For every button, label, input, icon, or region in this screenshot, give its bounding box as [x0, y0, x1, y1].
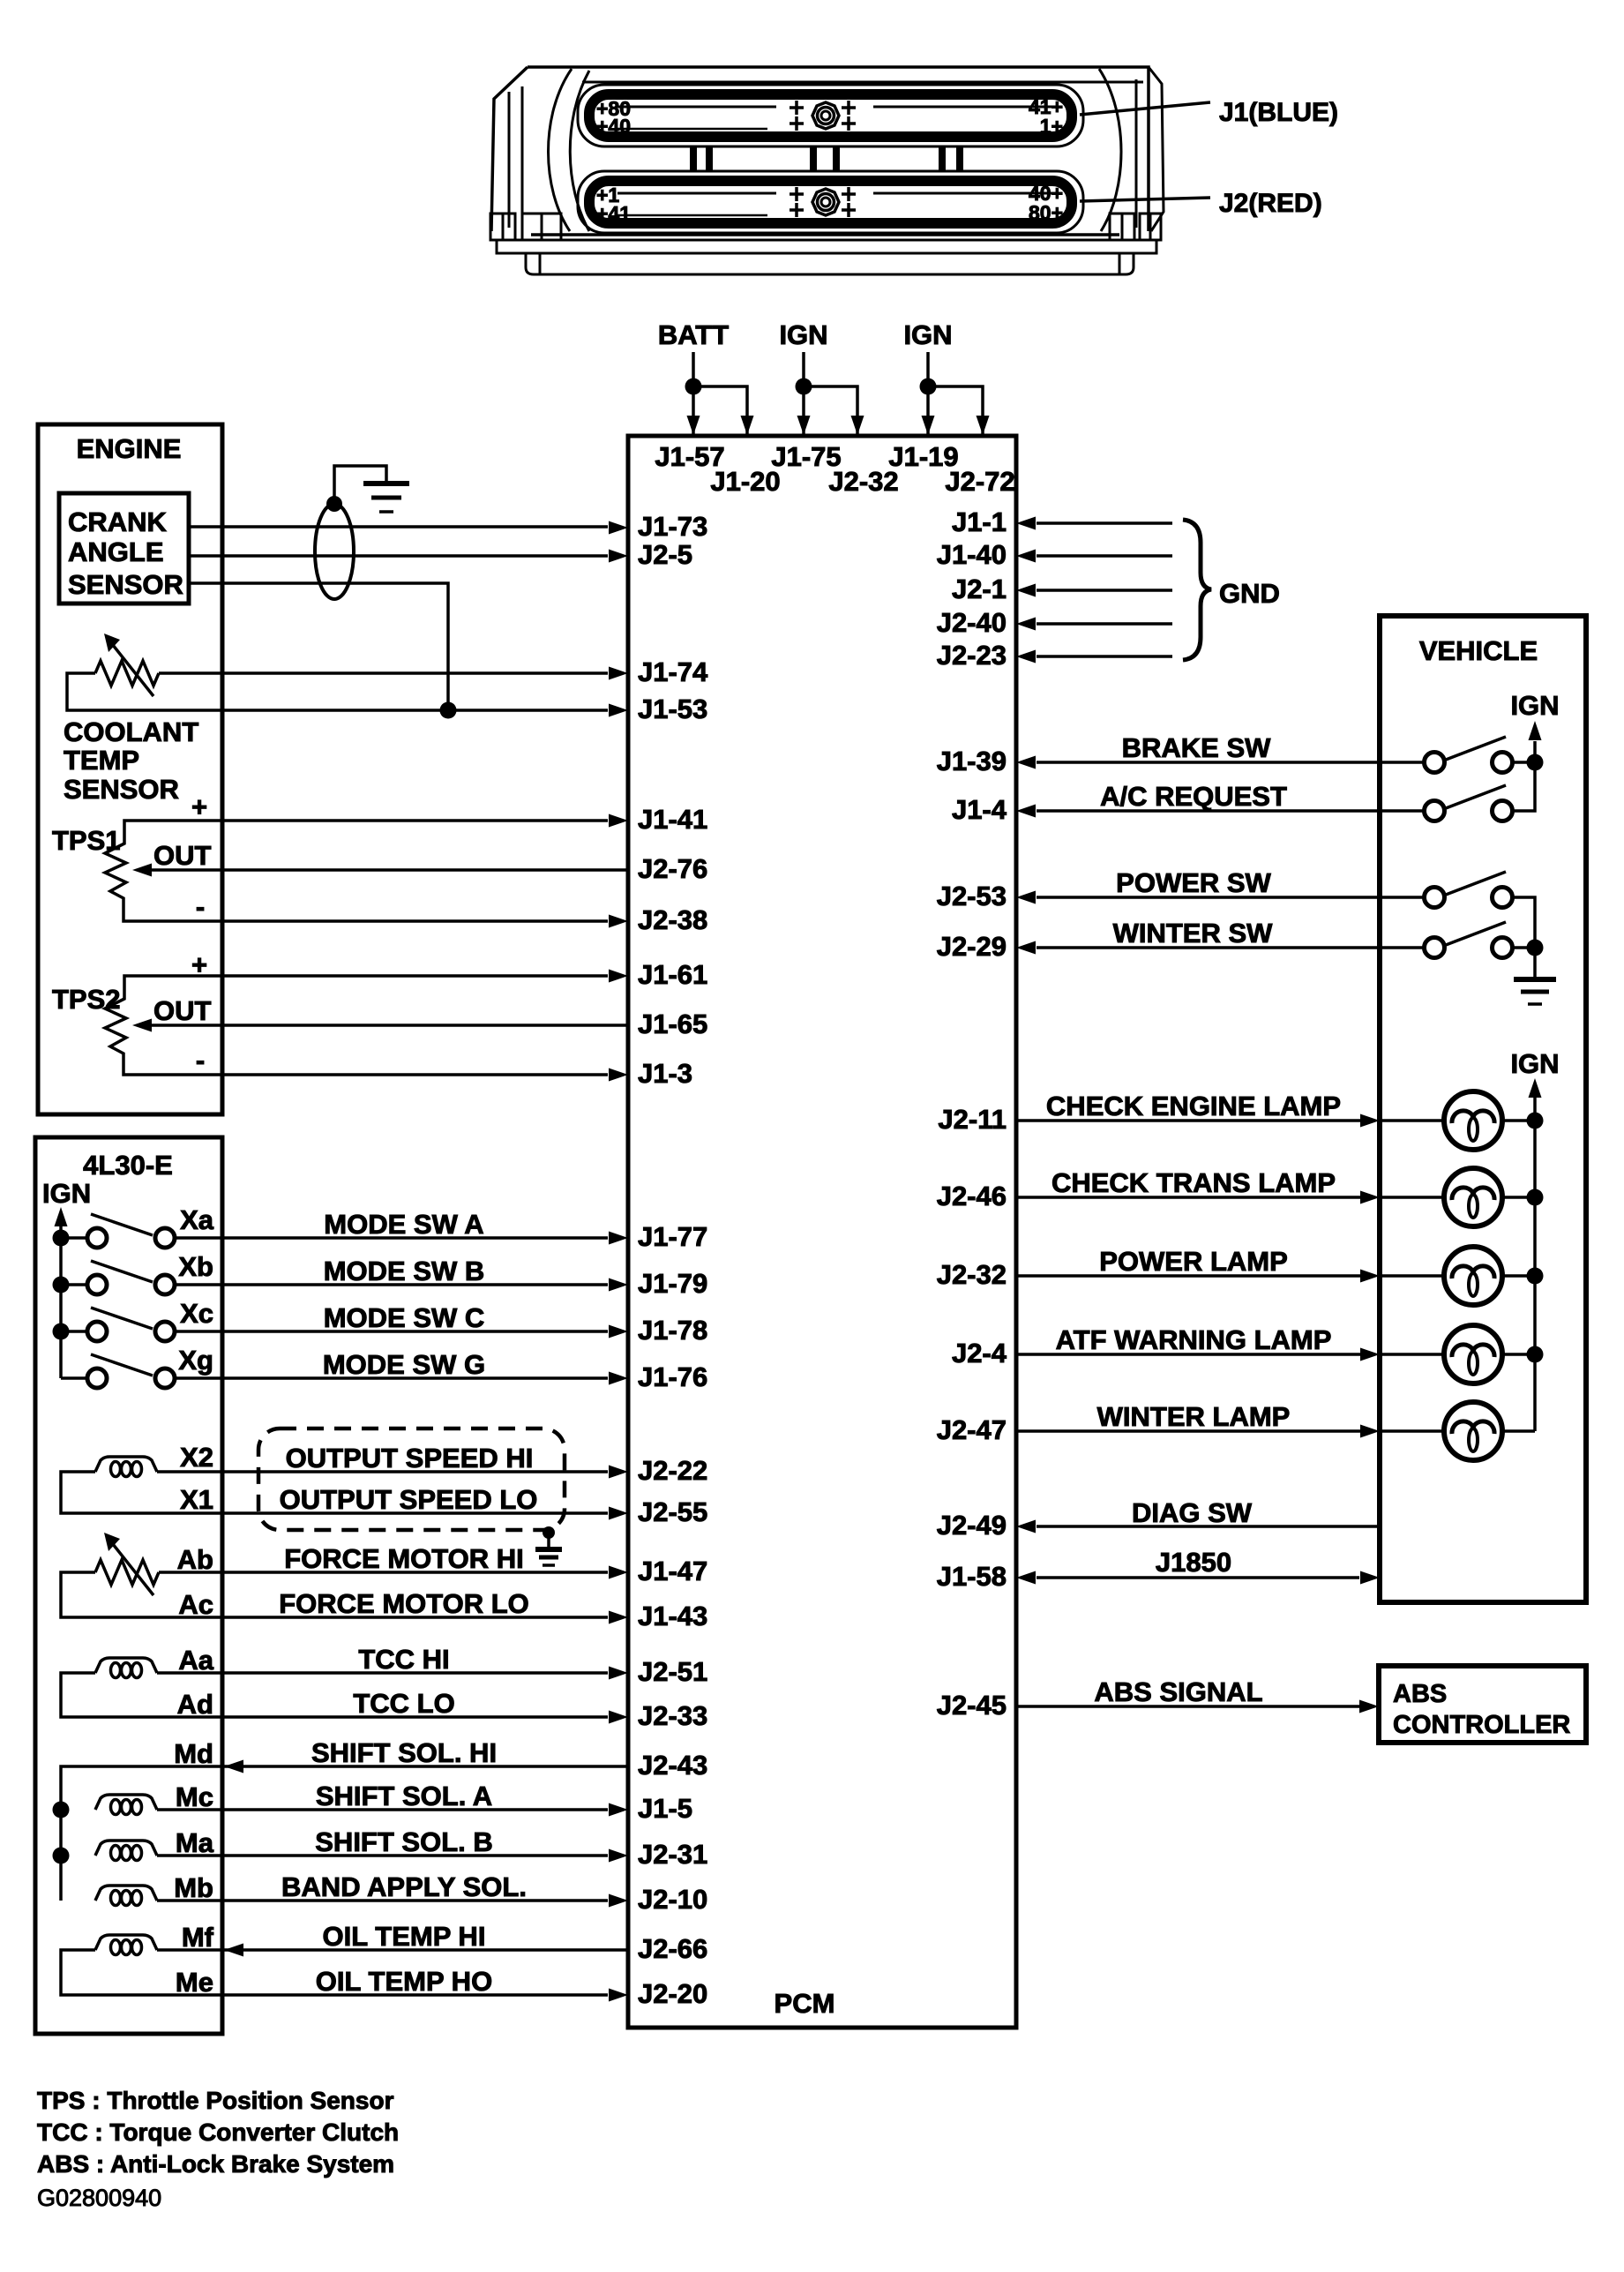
svg-text:OUT: OUT	[153, 995, 212, 1026]
svg-text:J1-73: J1-73	[638, 511, 707, 542]
svg-text:OUT: OUT	[153, 840, 212, 871]
svg-text:CHECK ENGINE LAMP: CHECK ENGINE LAMP	[1046, 1091, 1341, 1121]
svg-text:POWER SW: POWER SW	[1116, 867, 1271, 898]
svg-text:Ad: Ad	[177, 1689, 213, 1720]
svg-text:J1-58: J1-58	[937, 1561, 1007, 1592]
svg-text:J2-51: J2-51	[638, 1656, 707, 1687]
svg-text:J2(RED): J2(RED)	[1219, 189, 1322, 218]
svg-text:J1-3: J1-3	[638, 1058, 692, 1089]
svg-text:POWER LAMP: POWER LAMP	[1099, 1246, 1288, 1277]
svg-text:Mc: Mc	[176, 1781, 213, 1812]
svg-text:IGN: IGN	[1510, 690, 1559, 721]
svg-text:+40: +40	[596, 115, 631, 138]
svg-text:Xb: Xb	[178, 1251, 213, 1282]
svg-text:CHECK TRANS LAMP: CHECK TRANS LAMP	[1051, 1167, 1336, 1198]
svg-text:A/C REQUEST: A/C REQUEST	[1100, 781, 1287, 812]
svg-text:J2-53: J2-53	[937, 881, 1007, 911]
svg-text:J2-23: J2-23	[937, 640, 1007, 671]
svg-text:J1-1: J1-1	[952, 506, 1007, 537]
svg-text:J1-76: J1-76	[638, 1361, 707, 1392]
svg-text:J1-53: J1-53	[638, 694, 707, 724]
svg-text:J2-32: J2-32	[828, 466, 898, 497]
svg-text:MODE SW A: MODE SW A	[324, 1209, 483, 1240]
svg-text:ABS: ABS	[1393, 1680, 1447, 1708]
svg-text:J1-61: J1-61	[638, 959, 707, 990]
svg-text:MODE SW C: MODE SW C	[324, 1302, 485, 1333]
svg-text:J2-22: J2-22	[638, 1455, 707, 1486]
svg-text:ENGINE: ENGINE	[77, 433, 182, 464]
svg-text:J2-10: J2-10	[638, 1884, 707, 1915]
svg-text:J2-72: J2-72	[945, 466, 1014, 497]
svg-text:J2-43: J2-43	[638, 1750, 707, 1781]
svg-text:J1-78: J1-78	[638, 1315, 707, 1346]
svg-text:OUTPUT SPEED HI: OUTPUT SPEED HI	[286, 1443, 534, 1473]
svg-text:IGN: IGN	[903, 319, 952, 350]
svg-text:J2-40: J2-40	[937, 607, 1007, 638]
svg-text:4L30-E: 4L30-E	[83, 1150, 173, 1181]
svg-text:J2-46: J2-46	[937, 1181, 1007, 1211]
svg-text:BATT: BATT	[658, 319, 729, 350]
svg-text:J2-4: J2-4	[952, 1338, 1007, 1368]
svg-text:IGN: IGN	[1510, 1048, 1559, 1079]
svg-text:Xc: Xc	[180, 1298, 213, 1329]
svg-text:J1-41: J1-41	[638, 804, 707, 835]
svg-text:J1-79: J1-79	[638, 1268, 707, 1299]
svg-text:J2-32: J2-32	[937, 1259, 1007, 1290]
svg-text:J1-65: J1-65	[638, 1009, 707, 1039]
svg-text:J2-76: J2-76	[638, 853, 707, 884]
svg-text:J2-49: J2-49	[937, 1510, 1007, 1541]
svg-text:ABS : Anti-Lock Brake System: ABS : Anti-Lock Brake System	[37, 2150, 394, 2178]
svg-text:J1-47: J1-47	[638, 1556, 707, 1586]
svg-text:J2-38: J2-38	[638, 904, 707, 935]
svg-text:TCC : Torque Converter Clutch: TCC : Torque Converter Clutch	[37, 2118, 399, 2146]
svg-text:J1-5: J1-5	[638, 1793, 692, 1824]
svg-text:FORCE MOTOR LO: FORCE MOTOR LO	[279, 1588, 529, 1619]
svg-text:Me: Me	[176, 1967, 213, 1998]
svg-text:J1-43: J1-43	[638, 1601, 707, 1631]
svg-text:-: -	[196, 891, 205, 922]
svg-text:Ma: Ma	[176, 1827, 214, 1858]
svg-text:80+: 80+	[1029, 201, 1063, 224]
svg-text:OUTPUT SPEED LO: OUTPUT SPEED LO	[280, 1484, 538, 1515]
svg-text:J1-39: J1-39	[937, 746, 1007, 776]
svg-text:J2-33: J2-33	[638, 1700, 707, 1731]
svg-text:-: -	[196, 1045, 205, 1076]
svg-text:OIL TEMP HI: OIL TEMP HI	[323, 1921, 486, 1952]
svg-text:OIL TEMP HO: OIL TEMP HO	[316, 1966, 492, 1997]
svg-text:Aa: Aa	[178, 1645, 213, 1676]
svg-text:G02800940: G02800940	[37, 2185, 161, 2211]
svg-text:GND: GND	[1219, 578, 1280, 609]
svg-text:ABS SIGNAL: ABS SIGNAL	[1094, 1676, 1262, 1707]
svg-text:SHIFT SOL. HI: SHIFT SOL. HI	[311, 1737, 497, 1768]
svg-text:DIAG SW: DIAG SW	[1132, 1497, 1253, 1528]
svg-text:VEHICLE: VEHICLE	[1419, 635, 1538, 666]
svg-text:ANGLE: ANGLE	[68, 536, 164, 567]
svg-text:TCC HI: TCC HI	[358, 1644, 449, 1675]
svg-text:J2-1: J2-1	[952, 574, 1007, 604]
svg-text:WINTER SW: WINTER SW	[1113, 918, 1274, 949]
svg-text:Mb: Mb	[174, 1872, 213, 1903]
svg-text:J2-29: J2-29	[937, 931, 1007, 962]
svg-text:SENSOR: SENSOR	[68, 569, 183, 600]
svg-text:J2-31: J2-31	[638, 1839, 707, 1870]
svg-text:SENSOR: SENSOR	[64, 774, 179, 805]
svg-text:J2-11: J2-11	[938, 1104, 1007, 1135]
svg-text:J2-47: J2-47	[937, 1414, 1007, 1445]
svg-text:+: +	[191, 791, 207, 822]
svg-text:FORCE MOTOR HI: FORCE MOTOR HI	[284, 1543, 524, 1574]
svg-text:J2-45: J2-45	[937, 1690, 1007, 1721]
svg-text:Mf: Mf	[182, 1922, 214, 1953]
svg-text:J1-40: J1-40	[937, 539, 1007, 570]
svg-text:Ac: Ac	[178, 1589, 213, 1620]
svg-text:TPS : Throttle Position Sensor: TPS : Throttle Position Sensor	[37, 2087, 394, 2114]
svg-text:J1-77: J1-77	[638, 1221, 707, 1252]
svg-text:Xa: Xa	[180, 1204, 214, 1235]
svg-text:IGN: IGN	[42, 1178, 91, 1209]
svg-text:Md: Md	[174, 1738, 213, 1769]
svg-text:X2: X2	[180, 1442, 213, 1473]
svg-text:J1-4: J1-4	[952, 794, 1007, 825]
svg-text:J2-20: J2-20	[638, 1978, 707, 2009]
svg-text:ATF WARNING LAMP: ATF WARNING LAMP	[1056, 1324, 1332, 1355]
svg-text:MODE SW G: MODE SW G	[323, 1349, 485, 1380]
svg-text:J1-74: J1-74	[638, 656, 708, 687]
svg-text:SHIFT SOL. A: SHIFT SOL. A	[316, 1781, 492, 1811]
svg-text:Xg: Xg	[178, 1345, 213, 1376]
svg-text:J1850: J1850	[1156, 1547, 1231, 1578]
svg-text:BAND APPLY SOL.: BAND APPLY SOL.	[281, 1871, 527, 1902]
svg-text:MODE SW B: MODE SW B	[324, 1256, 485, 1286]
svg-text:IGN: IGN	[779, 319, 827, 350]
svg-text:COOLANT: COOLANT	[64, 716, 198, 747]
svg-text:WINTER LAMP: WINTER LAMP	[1097, 1401, 1291, 1432]
svg-text:X1: X1	[180, 1484, 213, 1515]
svg-text:PCM: PCM	[775, 1988, 835, 2019]
svg-text:J1(BLUE): J1(BLUE)	[1219, 98, 1338, 127]
svg-text:TEMP: TEMP	[64, 745, 139, 776]
svg-text:SHIFT SOL. B: SHIFT SOL. B	[315, 1826, 493, 1857]
svg-text:CONTROLLER: CONTROLLER	[1393, 1711, 1570, 1739]
svg-text:+41: +41	[596, 202, 631, 225]
svg-text:J2-66: J2-66	[638, 1933, 707, 1964]
svg-text:J2-55: J2-55	[638, 1496, 707, 1527]
svg-text:1+: 1+	[1040, 115, 1063, 138]
svg-text:Ab: Ab	[177, 1544, 213, 1575]
svg-text:CRANK: CRANK	[68, 506, 168, 537]
svg-text:J1-20: J1-20	[710, 466, 780, 497]
svg-text:J2-5: J2-5	[638, 539, 692, 570]
svg-text:BRAKE SW: BRAKE SW	[1122, 732, 1272, 763]
svg-text:TCC LO: TCC LO	[353, 1688, 454, 1719]
